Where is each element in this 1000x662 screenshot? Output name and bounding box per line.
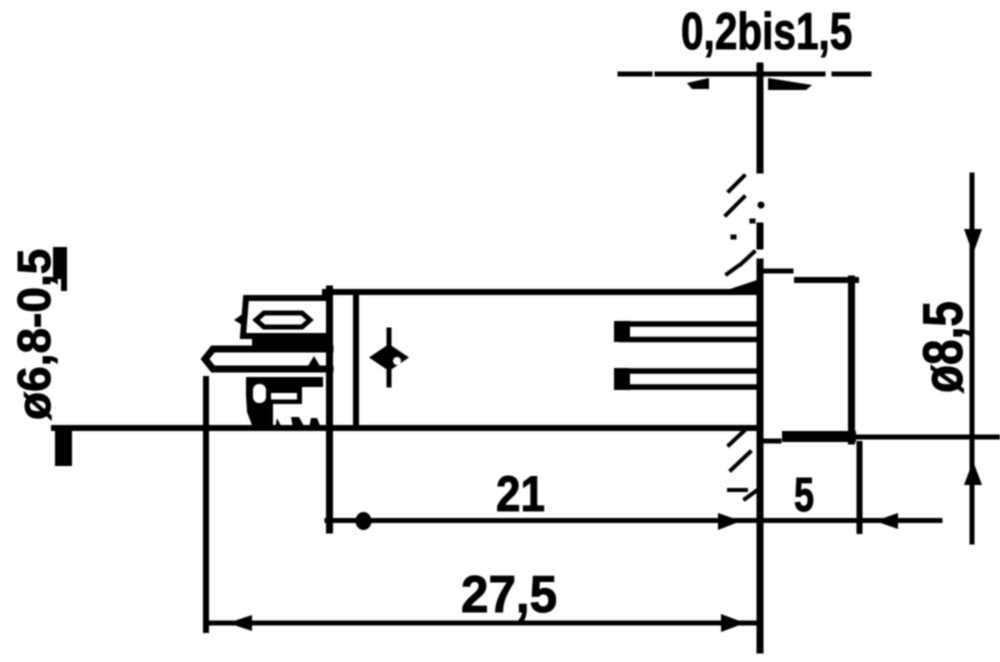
tab 3 top band <box>247 377 323 387</box>
panel thickness arrow left <box>687 78 709 89</box>
5 arrow <box>875 513 898 529</box>
extension line dia 8,5 bottom <box>856 435 1000 440</box>
body top junction wedge <box>730 279 760 295</box>
bezel top tick <box>761 269 791 274</box>
dimension text 21 <box>496 465 545 521</box>
left dim mark bottom <box>55 430 72 466</box>
dimension text 27,5 <box>461 565 557 623</box>
snap slot upper <box>622 324 757 340</box>
tab 1 left tip <box>234 313 244 326</box>
21 arrow right <box>718 513 741 530</box>
body rear edge line 2 <box>353 292 359 428</box>
tab 1 (top, flat view) <box>243 298 325 336</box>
tab 2 (middle, edge view) <box>205 349 330 369</box>
bezel bottom tick <box>763 439 779 444</box>
tab 3 left curl <box>246 377 273 428</box>
body rear edge line 1 <box>326 289 333 530</box>
dimension text dia 8,5 <box>912 301 974 393</box>
panel thickness arrow right <box>768 78 812 90</box>
bezel bottom thick edge <box>782 431 856 442</box>
panel line (vertical, with breaks) <box>757 66 764 650</box>
dia 8,5 arrow bottom <box>964 461 982 485</box>
body top edge <box>325 289 758 295</box>
svg-text:0,2bis1,5: 0,2bis1,5 <box>681 2 852 60</box>
tab 3 curl white hole <box>253 384 266 403</box>
tab base black bar <box>252 336 332 346</box>
snap slot lower <box>622 371 757 387</box>
tab 3 serrations <box>275 417 321 428</box>
svg-text:21: 21 <box>496 465 545 521</box>
27,5 arrow right <box>721 614 745 632</box>
27,5 arrow left <box>228 615 252 631</box>
bezel front top edge <box>797 277 856 283</box>
bezel front right edge <box>848 279 855 441</box>
lower break squiggle <box>729 431 756 499</box>
21 arrow left blob <box>356 512 372 530</box>
dimension line 27,5 <box>206 621 757 626</box>
dimension line 21 <box>327 518 757 523</box>
svg-text:5: 5 <box>794 468 814 521</box>
svg-text:ø6,8-0,5: ø6,8-0,5 <box>8 249 60 420</box>
svg-text:ø8,5: ø8,5 <box>912 301 974 393</box>
orientation diamond marker <box>369 344 409 371</box>
tab 3 middle block <box>266 387 302 404</box>
dimension text 5 <box>794 468 814 521</box>
extension line tab tip <box>203 379 209 630</box>
upper break dots <box>733 221 753 237</box>
tab 1 slot <box>256 313 310 327</box>
dimension line 5 <box>761 518 940 523</box>
extension line bezel front <box>857 444 863 531</box>
dimension text 0,2bis1,5 <box>681 2 852 60</box>
tab 3 slit white <box>271 393 297 400</box>
panel break dot upper <box>758 202 765 209</box>
body bottom edge / baseline <box>54 425 758 431</box>
panel centerline dash-dot <box>620 72 869 77</box>
svg-text:27,5: 27,5 <box>461 565 557 623</box>
dia 8,5 arrow top <box>964 229 982 254</box>
dimension text dia 6,8-0,5 <box>8 249 60 420</box>
left dim mark top <box>53 247 67 279</box>
dimension line dia 8,5 <box>970 175 975 542</box>
upper break squiggle <box>726 176 754 274</box>
tab 2 crimp bump <box>308 356 320 366</box>
